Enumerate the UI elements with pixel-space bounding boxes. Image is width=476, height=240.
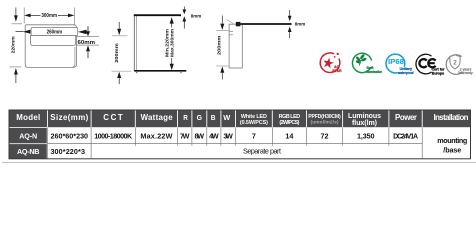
svg-text:(0.5W/PCS): (0.5W/PCS) [240,120,268,126]
base plate outline [25,25,76,68]
mounting plate (thick top line) [134,14,181,16]
CE mark [419,59,426,67]
220mm top arrow [15,8,17,16]
300mm extension line right [73,8,75,26]
svg-text:RGB LED: RGB LED [279,114,301,120]
svg-text:60mm: 60mm [78,40,96,46]
svg-text:1000-18000K: 1000-18000K [94,132,133,141]
svg-text:8mm: 8mm [295,22,306,28]
200mm bottom tick [112,70,132,72]
logo warranty circle [446,55,462,75]
svg-text:300mm: 300mm [41,13,57,19]
svg-text:8mm: 8mm [191,13,202,19]
svg-text:R: R [183,113,188,122]
cantilever plate thick line [240,23,291,25]
svg-text:7: 7 [252,132,256,141]
svg-text:Installation: Installation [434,113,469,122]
AQ STAR dots [334,56,336,58]
60mm lower arrow [86,45,90,51]
svg-text:/base: /base [443,146,461,155]
table outer border [9,110,471,159]
logo IP68 circle [386,54,405,73]
row2 column border stubs [135,144,389,146]
svg-text:IP68: IP68 [388,59,404,66]
logo Soft illumination circle [352,53,371,72]
300mm extension line left [23,8,25,24]
bottom rule [2,162,476,164]
300mm left arrowhead [24,14,30,18]
220mm bottom tick [10,66,22,68]
svg-text:260mm: 260mm [47,30,63,36]
svg-text:72: 72 [321,132,329,141]
260mm left outside arrow [16,31,24,33]
svg-text:(2W/PCS): (2W/PCS) [279,120,299,126]
logo CE circle [416,54,432,74]
60mm upper arrow [87,26,89,31]
200mm top tick (right) [217,30,229,32]
svg-text:mounting: mounting [437,136,467,145]
svg-text:Model: Model [16,113,40,122]
8mm dim (right) lower arrow [288,27,292,32]
60mm bottom tick [76,44,99,46]
200mm top tick [112,35,128,37]
60mm top tick [76,36,99,38]
junction node [236,22,241,26]
ground thick line [134,70,186,72]
svg-text:Max.22W: Max.22W [140,132,172,141]
leaves [359,60,361,66]
svg-text:Wattage: Wattage [141,113,174,122]
pole clamp detail [229,31,233,33]
svg-text:Max.300mm: Max.300mm [170,29,175,57]
svg-text:200mm: 200mm [114,43,120,63]
leader diagonal [227,19,235,24]
header labels [16,113,468,127]
220mm bottom arrow [14,68,18,75]
logo AQ STAR circle [320,53,340,73]
svg-text:DC24V1A: DC24V1A [393,134,418,141]
light bar top face [31,28,78,36]
warranty shield [450,55,460,69]
300mm right arrowhead [68,14,74,18]
svg-text:Europe: Europe [432,71,444,75]
svg-text:White LED: White LED [241,114,267,120]
row 1 data [19,132,467,155]
8mm dim (middle) upper arrow [183,7,185,10]
200mm dim (middle drawing) top arrow [118,22,120,29]
data grid lines [48,128,423,159]
svg-text:200mm: 200mm [216,36,222,56]
svg-text:4W: 4W [209,132,219,141]
model column dark cell row2 [9,144,47,159]
pole outline [229,24,242,68]
200mm dim (right drawing) top arrow [221,16,223,24]
AQ STAR star [323,58,334,69]
base plate inner right edge [73,47,75,67]
warranty sparkle [458,54,461,57]
light bar front face [30,36,75,46]
svg-text:260*60*230: 260*60*230 [51,132,89,141]
svg-text:Warranty: Warranty [458,71,473,75]
svg-text:7W: 7W [180,132,190,141]
svg-text:8W: 8W [195,132,205,141]
svg-text:AQ-N: AQ-N [19,132,37,141]
svg-text:illumination: illumination [366,70,382,74]
svg-text:14: 14 [285,132,293,141]
svg-text:W: W [223,113,231,122]
svg-text:Power: Power [395,113,417,122]
svg-text:(umol/m2/s): (umol/m2/s) [311,119,339,125]
svg-text:B: B [211,113,216,122]
svg-text:flux(lm): flux(lm) [352,120,377,127]
svg-text:300*220*3: 300*220*3 [50,147,85,156]
row 2 data [17,147,281,156]
svg-text:3W: 3W [223,132,233,141]
svg-text:CCT: CCT [103,113,123,122]
svg-text:Separate part: Separate part [243,147,281,156]
260mm right outside arrow [78,30,87,35]
Min/Max dimension bottom arrow [171,58,173,64]
wall double line [133,15,135,70]
200mm bottom tick (right) [217,65,229,67]
svg-text:PPFD(H30CM): PPFD(H30CM) [308,114,341,120]
200mm bottom arrow [117,72,121,78]
svg-text:G: G [197,113,202,122]
svg-text:STAR: STAR [332,69,342,73]
svg-text:1,350: 1,350 [357,132,375,141]
300mm dimension line [27,14,41,16]
svg-text:220mm: 220mm [10,36,16,53]
svg-text:AQ-NB: AQ-NB [17,147,40,156]
header background [9,110,471,127]
8mm dim (right) upper arrow [289,10,291,16]
200mm bottom arrow (right) [220,66,224,72]
Min/Max dimension top arrow [170,17,174,23]
svg-text:waterproof: waterproof [397,71,414,75]
svg-text:Size(mm): Size(mm) [50,113,88,122]
model column dark cell row1 [9,128,47,143]
header separators [48,110,423,127]
220mm top tick [12,23,23,25]
8mm dim (middle) lower arrow [182,16,186,21]
